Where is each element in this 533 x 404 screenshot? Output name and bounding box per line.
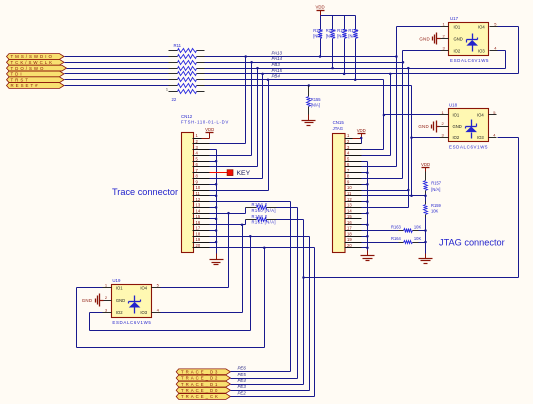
resistor R164 [362,236,427,244]
svg-text:19: 19 [196,237,201,242]
wire PB4 row [205,78,384,81]
svg-text:PA15: PA15 [272,68,283,73]
wire CN12 pin10 up [210,80,269,191]
svg-text:R11: R11 [174,43,182,48]
svg-text:VDD: VDD [205,127,214,132]
wire PA15 row [205,73,519,76]
svg-text:1: 1 [166,88,168,92]
wire U19 pin4 up [161,225,243,313]
resistor R154/R160 [246,202,277,213]
svg-text:R158 0: R158 0 [252,214,268,219]
wire PA13 row [205,55,397,58]
svg-text:[N/A]: [N/A] [313,33,322,38]
ground under CN12 [210,254,224,265]
svg-text:17: 17 [196,226,201,231]
svg-text:U19: U19 [112,278,121,283]
svg-text:VDD: VDD [316,5,325,10]
wire PB4 to CN15 pin3 [383,80,385,150]
ground under R155 [302,115,316,126]
resistor R158/R161 [246,214,277,225]
svg-text:10: 10 [347,185,352,190]
wire CN12 pin20 to TRACE_CK [210,247,315,397]
net label TRACE_D2 [176,375,230,381]
svg-text:IO2: IO2 [116,310,123,315]
svg-text:22: 22 [172,97,177,102]
wire CN12 pin8 up [210,74,263,179]
svg-text:14: 14 [196,208,201,213]
svg-text:16: 16 [347,220,352,225]
ground under CN15 [361,251,375,261]
net label TRACE_CK [176,394,230,400]
svg-text:16: 16 [196,220,201,225]
svg-text:18: 18 [196,232,201,237]
text JTAG connector [439,238,505,248]
node PE4 [238,378,247,383]
wire U17 pin1 to PA13 [395,27,440,58]
svg-text:TRACE_D2: TRACE_D2 [181,376,219,381]
wire U19 pin5 up [161,214,229,288]
svg-text:[N/A]: [N/A] [311,103,320,108]
svg-text:ESDALC6V1W5: ESDALC6V1W5 [112,320,151,325]
wire PE5 [231,378,298,380]
net label TRACE_D0 [176,387,230,393]
svg-text:[N/A]: [N/A] [348,33,357,38]
svg-text:[N/A]: [N/A] [326,33,335,38]
power VDD at CN15 pin1 [353,128,366,139]
wire VDD rail [321,15,356,17]
svg-text:19: 19 [347,237,352,242]
node PE2 [238,390,247,395]
resistor R155 [307,86,322,115]
svg-text:GND: GND [116,298,125,303]
svg-text:PA14: PA14 [272,56,283,61]
node PA14 [272,56,283,61]
svg-text:TDI: TDI [11,72,24,77]
svg-text:TRACE_D1: TRACE_D1 [181,382,219,387]
wire CN15 ground bus [362,162,369,251]
wire CN12 pin2 up [210,57,246,144]
svg-text:R157: R157 [431,180,442,185]
svg-text:17: 17 [347,226,352,231]
svg-text:10K: 10K [414,224,422,229]
node KEY at CN12 pin7 [210,170,251,177]
svg-text:IO2: IO2 [454,48,461,53]
svg-text:15: 15 [196,214,201,219]
wire flags to R11 [65,57,169,86]
wire CN15 pin10 [362,190,409,192]
svg-text:10: 10 [196,185,201,190]
svg-text:TDO/SWO: TDO/SWO [11,66,46,71]
svg-text:R154 0: R154 0 [252,202,268,207]
svg-text:15: 15 [347,214,352,219]
wire R158 to TRACE_D1 [277,220,304,385]
ground GND at U19 pin2 [82,294,104,307]
node PB4 [272,74,281,79]
wire RESET to CN15 pin11 node [410,86,413,198]
wire CN15 pin11 [362,195,426,197]
svg-text:R159: R159 [431,203,442,208]
wire CN12 ground bus [210,150,218,254]
svg-text:IO4: IO4 [478,24,485,29]
net label TRST [7,77,65,83]
power VDD top [316,5,325,16]
svg-text:Trace connector: Trace connector [112,187,178,197]
svg-text:IO3: IO3 [140,310,147,315]
net label TDI [7,71,65,77]
svg-text:GND: GND [82,298,93,303]
wire U18 pin3 [410,136,439,139]
resistor R11 [166,43,205,102]
svg-text:R160 [N/A]: R160 [N/A] [252,208,277,213]
node PA13 [272,50,283,55]
svg-text:20: 20 [347,243,352,248]
wire CN15 pin3 [362,149,384,151]
wire PA15 branch to CN15 pin4 [390,74,392,156]
svg-text:PB4: PB4 [272,74,281,79]
svg-text:GND: GND [418,124,429,129]
svg-text:10K: 10K [431,209,439,214]
wire U17 pin3 to PA14 [403,51,441,63]
resistor R158 [337,16,348,74]
wire PA14 to CN15 pin8 [402,63,404,179]
node PE6 [238,366,247,371]
svg-text:IO4: IO4 [140,285,147,290]
wire PE6 [231,371,291,373]
svg-text:PA13: PA13 [272,50,283,55]
resistor R152 [313,16,324,57]
svg-text:R161 [N/A]: R161 [N/A] [252,220,277,225]
svg-text:VDD: VDD [421,162,430,167]
resistor R160 [326,16,337,69]
svg-text:CN15: CN15 [333,120,345,125]
svg-text:JTAG: JTAG [333,126,343,131]
op-amp U18 (ESD array) [440,103,497,150]
svg-text:GND: GND [454,36,463,41]
power VDD at R157 [421,162,430,172]
svg-text:GND: GND [419,36,430,41]
wire PA14 row [205,61,405,64]
wire U18 pin1 [383,114,440,117]
svg-text:IO4: IO4 [477,113,484,118]
svg-text:IO1: IO1 [453,113,460,118]
resistor R163 [362,224,427,232]
power VDD at CN12 pin1 [202,127,215,139]
wire PE4 [231,384,304,386]
text Trace connector [112,187,178,197]
svg-text:11: 11 [196,191,201,196]
net label TDO/SWO [7,65,67,71]
wire R154 to TRACE_D2 [277,208,298,379]
resistor R136 [348,16,359,80]
wire U19 pin1 loop [77,248,265,348]
svg-text:TRST: TRST [11,77,30,82]
wire U19 pin3 loop [90,237,251,331]
wire CN15 pin2 jog [360,137,363,144]
svg-text:GND: GND [453,124,462,129]
svg-text:14: 14 [347,208,352,213]
op-amp U17 (ESD array) [441,16,498,63]
resistor R157 [424,172,442,196]
net label TRACE_D1 [176,381,230,387]
wire CN12 pin16 [210,220,246,226]
svg-text:TRACE_D3: TRACE_D3 [181,370,219,375]
svg-text:IO2: IO2 [453,135,460,140]
svg-text:IO1: IO1 [454,24,461,29]
svg-text:PE5: PE5 [238,372,247,377]
svg-text:PE4: PE4 [238,378,247,383]
wire CN15 pin4 [362,155,391,157]
svg-text:20: 20 [196,243,201,248]
svg-text:IO3: IO3 [477,135,484,140]
wire CN12 pin14 [210,208,246,215]
svg-text:[N/A]: [N/A] [337,33,346,38]
net label TCK/SWCLK [7,59,65,65]
net label TRACE_D3 [176,369,230,375]
op-amp U19 (ESD array) [103,278,161,325]
wire PE2 [231,396,315,398]
ground GND at U18 pin2 [418,121,439,133]
svg-text:TRACE_CK: TRACE_CK [181,394,220,399]
connector CN12 FTSH-110-01-L-DV [181,114,229,253]
node PE3 [238,384,247,389]
svg-text:R164: R164 [391,236,402,241]
svg-text:R155: R155 [311,97,322,102]
wire U18 pin4 down-left [302,138,518,279]
wire PB3 row [205,67,506,70]
svg-text:13: 13 [347,203,352,208]
net label TMS/SWDIO [7,54,65,60]
wire CN12 pin4 up [210,63,252,156]
node PA15 [272,68,283,73]
wire CN15 pin8 [362,178,403,180]
svg-text:CN12: CN12 [181,114,193,119]
svg-text:ESDALC6V1W5: ESDALC6V1W5 [449,145,488,150]
node PB3 [272,62,281,67]
svg-text:KEY: KEY [237,170,251,177]
svg-text:PB3: PB3 [272,62,281,67]
svg-text:JTAG connector: JTAG connector [439,238,505,248]
wire PA13 to CN15 pin6 [396,57,398,167]
wire U17 pin4 to PB3 [498,51,506,69]
wire CN12 pin6 up [210,69,258,167]
wire CN12 pin12 to TRACE_D3 [210,202,291,372]
ground under R159 node [419,254,433,264]
resistor R159 [424,195,442,254]
svg-text:FTSH-110-01-L-DV: FTSH-110-01-L-DV [181,119,229,124]
wire U17 pin5 to PA15 [498,27,519,74]
svg-text:11: 11 [347,191,352,196]
svg-text:12: 12 [347,197,352,202]
svg-text:R163: R163 [391,224,402,229]
svg-text:U18: U18 [449,103,458,108]
wire CN15 pin6 [362,166,397,168]
svg-text:18: 18 [347,232,352,237]
wire RESET row [205,84,412,87]
svg-text:TCK/SWCLK: TCK/SWCLK [11,60,55,65]
connector CN15 JTAG [333,120,362,252]
svg-text:12: 12 [196,197,201,202]
node PE5 [238,372,247,377]
svg-text:[N/A]: [N/A] [431,187,440,192]
svg-text:IO3: IO3 [478,48,485,53]
svg-text:PE3: PE3 [238,384,247,389]
svg-text:RESET#: RESET# [11,83,40,88]
svg-text:13: 13 [196,203,201,208]
svg-text:TMS/SWDIO: TMS/SWDIO [11,54,54,59]
svg-text:VDD: VDD [357,128,366,133]
svg-text:ESDALC6V1W5: ESDALC6V1W5 [450,58,489,63]
wire CN15 pin13 [362,207,409,209]
svg-text:PE6: PE6 [238,366,247,371]
svg-text:PE2: PE2 [238,390,247,395]
wire PB3 to CN15 pin10/13 [407,69,410,208]
svg-text:U17: U17 [450,16,459,21]
svg-text:IO1: IO1 [116,285,123,290]
ground GND at U17 pin2 [419,33,440,45]
net label RESET# [7,83,65,89]
svg-text:TRACE_D0: TRACE_D0 [181,388,219,393]
svg-text:10K: 10K [414,236,422,241]
wire PE3 [231,390,310,392]
wire CN12 pin18 to TRACE_D0 [210,235,310,390]
